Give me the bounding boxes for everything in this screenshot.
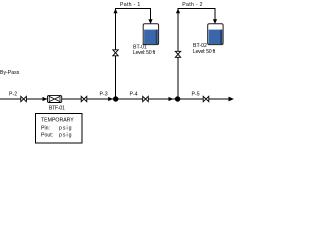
svg-text:Path - 2: Path - 2 [182,2,203,8]
svg-text:Path - 1: Path - 1 [120,2,141,8]
svg-text:BTF-01: BTF-01 [49,106,65,112]
svg-text:BT-02: BT-02 [193,43,207,49]
svg-text:P-2: P-2 [9,92,17,98]
svg-text:P-3: P-3 [100,92,108,98]
svg-text:psig: psig [59,133,73,139]
svg-text:P-5: P-5 [192,92,200,98]
svg-text:P-4: P-4 [130,92,138,98]
svg-text:Level: 50 ft: Level: 50 ft [193,49,216,55]
svg-text:Pout:: Pout: [41,133,53,139]
svg-text:Pin:: Pin: [41,125,50,131]
svg-text:Level: 50 ft: Level: 50 ft [133,50,156,56]
svg-text:TEMPORARY: TEMPORARY [41,118,74,124]
svg-text:psig: psig [59,125,73,131]
svg-text:By-Pass: By-Pass [0,70,20,76]
